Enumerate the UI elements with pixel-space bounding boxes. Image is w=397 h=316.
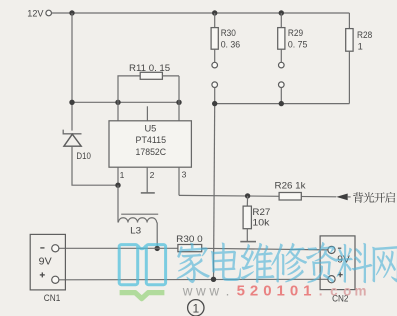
svg-text:R30: R30 — [221, 28, 236, 38]
pad R30 bottom — [212, 82, 218, 88]
svg-text:w: w — [182, 283, 193, 298]
svg-text:12V: 12V — [27, 7, 44, 18]
junction on rail at R30 — [212, 10, 217, 15]
connector CN2 — [320, 236, 355, 290]
svg-text:17852C: 17852C — [136, 147, 167, 157]
pad R29 top — [279, 62, 285, 68]
resistor R29 0.75 — [280, 13, 282, 28]
svg-text:2: 2 — [150, 170, 155, 180]
wire sense-bus drop (x=214) — [214, 104, 215, 280]
wire 12V top rail — [52, 12, 350, 14]
resistor R30 0.36 — [214, 13, 216, 28]
stub U5 top center pin — [146, 106, 148, 121]
resistor R28 1 — [348, 13, 350, 29]
svg-text:o: o — [343, 283, 351, 298]
svg-text:m: m — [354, 283, 366, 298]
pad R29 bottom — [279, 82, 285, 88]
wire R30-0 to CN2 — [202, 248, 329, 250]
svg-text:1: 1 — [303, 282, 311, 299]
wire CN1 minus to CN2 (LED+ net) — [59, 247, 178, 249]
svg-text:L3: L3 — [130, 225, 141, 235]
svg-text:1: 1 — [277, 282, 285, 299]
wire lower sense bus — [215, 103, 350, 105]
svg-text:2: 2 — [250, 282, 258, 299]
svg-text:R29: R29 — [288, 28, 303, 38]
diode D10 — [63, 130, 81, 134]
junction R27 tap — [245, 193, 250, 198]
svg-text:9V: 9V — [39, 257, 52, 268]
junction on rail at R29 — [279, 10, 284, 15]
wire L3 right end down — [156, 222, 159, 224]
junction bus / drop — [212, 101, 217, 106]
pin 2 — [146, 167, 148, 193]
resistor R30 0 (series) — [178, 245, 202, 252]
wire D10 anode down to pin 1 net — [72, 146, 118, 185]
pad R30 top — [212, 62, 218, 68]
junction on rail at D10 column — [69, 10, 74, 15]
svg-text:1: 1 — [358, 41, 363, 51]
figure number 1 — [188, 300, 204, 316]
junction return / drop — [211, 277, 216, 282]
svg-text:0. 36: 0. 36 — [221, 40, 241, 50]
svg-text:R27: R27 — [252, 207, 270, 217]
wire pin 3 net to backlight-enable — [179, 195, 336, 196]
svg-text:CN1: CN1 — [44, 293, 61, 303]
wire upper-left bus (VIN net) — [72, 101, 179, 103]
junction bus / R11 right — [176, 100, 181, 105]
svg-text:D10: D10 — [76, 151, 91, 161]
arrow backlight enable input — [336, 194, 347, 201]
junction bus / R11 left — [115, 100, 120, 105]
svg-text:R30 0: R30 0 — [176, 234, 203, 244]
resistor R11 0.15 (sense) — [118, 76, 140, 102]
wire CN1 plus to CN2 (return net) — [59, 278, 329, 281]
svg-text:U5: U5 — [144, 124, 156, 134]
net label 背光开启 (backlight on) — [353, 192, 363, 203]
resistor R27 10k — [246, 196, 248, 206]
svg-text:PT4115: PT4115 — [136, 135, 167, 145]
ground (pin 2) — [141, 192, 155, 194]
resistor R26 1k — [279, 193, 301, 201]
svg-text:w: w — [208, 283, 219, 298]
wire rail to D10 — [71, 13, 73, 131]
pin 1 — [117, 167, 119, 185]
ground (below R27) — [246, 229, 248, 242]
svg-text:.: . — [226, 283, 230, 298]
junction L3 / LED+ wire — [155, 246, 160, 251]
svg-text:w: w — [195, 283, 206, 298]
svg-text:0. 75: 0. 75 — [288, 40, 308, 50]
svg-text:0: 0 — [290, 282, 298, 299]
svg-text:10k: 10k — [252, 218, 269, 228]
svg-text:R26 1k: R26 1k — [275, 181, 306, 191]
junction bus / D10 column — [69, 100, 74, 105]
inductor L3 — [117, 185, 119, 222]
svg-text:.: . — [319, 283, 323, 298]
op-amp U5 PT4115 17852C (LED driver IC) — [109, 121, 191, 167]
wire bus to U5 VIN pin — [117, 102, 119, 121]
node pin1 / D10 / L3 junction — [115, 183, 120, 188]
node 12V input terminal — [46, 10, 52, 16]
svg-text:1: 1 — [192, 301, 199, 315]
svg-text:5: 5 — [237, 282, 245, 299]
connector CN1 — [30, 234, 65, 290]
svg-text:R28: R28 — [357, 30, 372, 40]
junction bus / R29 — [279, 101, 284, 106]
svg-text:3: 3 — [182, 170, 187, 180]
svg-text:c: c — [330, 283, 338, 298]
svg-text:R11 0. 15: R11 0. 15 — [129, 63, 170, 73]
svg-text:0: 0 — [263, 282, 271, 299]
pin 3 — [178, 167, 180, 195]
svg-text:1: 1 — [120, 170, 125, 180]
wire bus to U5 CSN pin — [178, 102, 180, 121]
